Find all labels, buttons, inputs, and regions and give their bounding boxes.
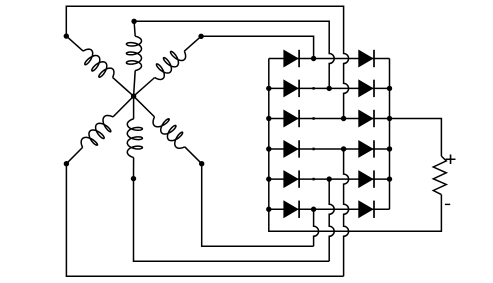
resistor: load resistor zigzag [433,156,446,195]
node: bottom-left winding terminal dot [64,161,69,166]
wire: phase from top-left winding to row 3 mid node (hops rows 1,2) [66,6,348,118]
node: bottom-right winding terminal dot [199,161,204,166]
wire: phase from bottom-right winding to row 6 mid node (hops bottom bus) [202,164,314,247]
diode: row 6 left [284,201,298,217]
junction: left bus at row 2 dot [266,86,271,91]
junction: row 4 mid node dot [341,146,346,151]
node: top-right winding terminal dot [198,34,203,39]
diode: row 5 left [284,171,298,187]
label: "+" positive terminal [446,155,456,164]
node: top-centre winding terminal dot [131,19,136,24]
wire: phase from bottom-centre winding to row 5 mid node (hops bus and row 6) [134,179,330,262]
inductor: bottom-right stator winding [185,147,202,164]
junction: right bus at row 2 dot [387,86,392,91]
node: bottom-centre winding terminal dot [131,176,136,181]
junction: row 2 mid node dot [327,86,332,91]
node: star centre (neutral) junction dot [131,94,136,99]
junction: left bus at row 6 dot [266,207,271,212]
diode: row 3 right [359,110,373,126]
junction: row 5 mid node dot [327,176,332,181]
tick: row 5 crossing mark [313,178,315,181]
junction: left bus at row 5 dot [266,176,271,181]
tick: row 2 crossing mark [313,87,315,90]
diode: row 1 right [359,50,373,66]
diode: row 4 right [359,141,373,157]
wire: phase from bottom-left winding to row 4 mid node (hops bus, rows 6,5) [66,164,343,277]
diode: row 4 left [284,141,298,157]
diode: row 5 right [359,171,373,187]
diode: row 3 left [284,110,298,126]
wire: phase from top-centre winding to row 2 mid node (hops row 1) [134,21,334,88]
junction: left bus at row 4 dot [266,146,271,151]
wire: rectifier row 2 horizontal [269,87,390,89]
wire: positive bus to resistor top [390,119,442,157]
junction: right bus at row 3 dot [387,116,392,121]
diode: row 6 right [359,201,373,217]
junction: row 3 mid node dot [341,116,346,121]
wire: negative bus (left) down and across to resistor bottom [269,59,442,232]
wire: rectifier row 3 horizontal [269,118,390,120]
diode: row 1 left [284,50,298,66]
junction: right bus at row 4 dot [387,146,392,151]
wire: rectifier row 6 horizontal [269,208,390,210]
junction: right bus at row 5 dot [387,176,392,181]
inductor: bottom-left stator winding [66,147,82,163]
label: "-" negative terminal [445,204,450,205]
junction: left bus at row 3 dot [266,116,271,121]
wire: positive bus (right) [389,59,391,210]
inductor: top-left stator winding [66,36,83,51]
junction: row 6 mid node dot [311,207,316,212]
inductor: bottom-centre stator winding [133,96,135,119]
wire: phase from top-right winding to row 1 mid node [201,36,314,58]
node: top-left winding terminal dot [64,33,69,38]
diode: row 2 right [359,80,373,96]
inductor: top-right stator winding [184,36,201,51]
wire: rectifier row 1 horizontal [269,58,390,60]
tick: row 4 crossing mark [313,148,315,151]
inductor: top-centre stator winding [134,21,135,36]
tick: row 3 crossing mark [313,117,315,120]
diode: row 2 left [284,80,298,96]
junction: row 1 mid node dot [311,56,316,61]
wire: rectifier row 5 horizontal [269,178,390,180]
wire: rectifier row 4 horizontal [269,148,390,150]
